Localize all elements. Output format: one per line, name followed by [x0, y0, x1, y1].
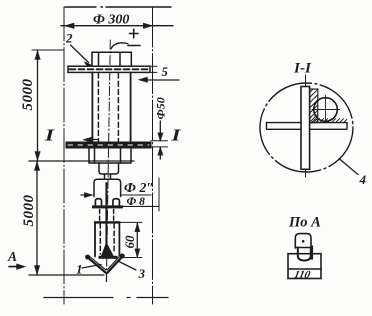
tube top band [94, 221, 120, 223]
below apex line [106, 273, 108, 282]
base plate [288, 254, 321, 279]
bolt circle [314, 98, 338, 122]
thread marks [95, 199, 119, 207]
detail circle [260, 83, 353, 172]
dimension line D300 [61, 23, 173, 28]
svg-text:Ф 2″: Ф 2″ [124, 181, 154, 196]
svg-text:4: 4 [359, 172, 367, 187]
cone tip V [86, 255, 123, 272]
inner rod [105, 183, 107, 247]
coupler box B [94, 179, 121, 196]
pipe outer walls upper [92, 72, 130, 142]
svg-text:5000: 5000 [20, 79, 36, 111]
svg-text:По А: По А [288, 215, 321, 231]
flange 1 plate [68, 66, 150, 72]
flange 2 arrow [83, 137, 97, 142]
svg-text:5: 5 [162, 65, 168, 79]
svg-text:60: 60 [122, 235, 137, 249]
horizontal plate [267, 123, 348, 130]
5000 dim lower [34, 161, 39, 275]
leader to centerline [111, 43, 128, 49]
right extension line [152, 7, 154, 304]
top centerline [65, 6, 171, 8]
svg-text:110: 110 [293, 269, 312, 281]
bolt head [92, 52, 131, 66]
pipe end [295, 234, 311, 248]
hub under flange 2 [89, 148, 131, 163]
svg-text:Ф50: Ф50 [154, 97, 168, 119]
ground level line [29, 160, 134, 162]
neck [105, 174, 111, 179]
bottom border dash-dot [44, 297, 168, 299]
svg-text:5000: 5000 [21, 195, 37, 227]
left extension line [63, 7, 65, 304]
svg-text:I-I: I-I [293, 61, 312, 77]
plus-minus mark [128, 29, 140, 45]
cone corner dots [85, 255, 90, 260]
dim 60 [124, 223, 142, 258]
detail centerline top [305, 75, 307, 93]
svg-text:А: А [7, 249, 17, 264]
bottom level line [29, 274, 104, 276]
svg-text:3: 3 [138, 266, 146, 281]
D2inch dim arrow [81, 192, 93, 197]
U bracket [298, 248, 311, 261]
inner dark tip [101, 243, 113, 257]
svg-text:2: 2 [65, 31, 73, 46]
transition box A [99, 163, 119, 174]
flange 2 plate [66, 142, 151, 148]
pole centerline [106, 40, 110, 282]
gusset hatch [310, 89, 318, 123]
svg-text:Ф 300: Ф 300 [93, 13, 129, 28]
leader from 2 [71, 45, 92, 68]
hidden dashes below joint [100, 210, 114, 221]
5000 dim upper [32, 50, 64, 161]
detail centerline bottom [305, 169, 307, 177]
weld hatch strip [312, 119, 347, 123]
D50 dim [151, 121, 168, 159]
joint band [92, 205, 123, 208]
dim 5 plate thickness [139, 66, 180, 82]
vertical plate [301, 87, 310, 170]
pipe hidden walls upper [98, 73, 118, 142]
svg-text:1: 1 [76, 262, 83, 277]
construction vertical right [158, 178, 160, 211]
lower tube [95, 224, 119, 257]
